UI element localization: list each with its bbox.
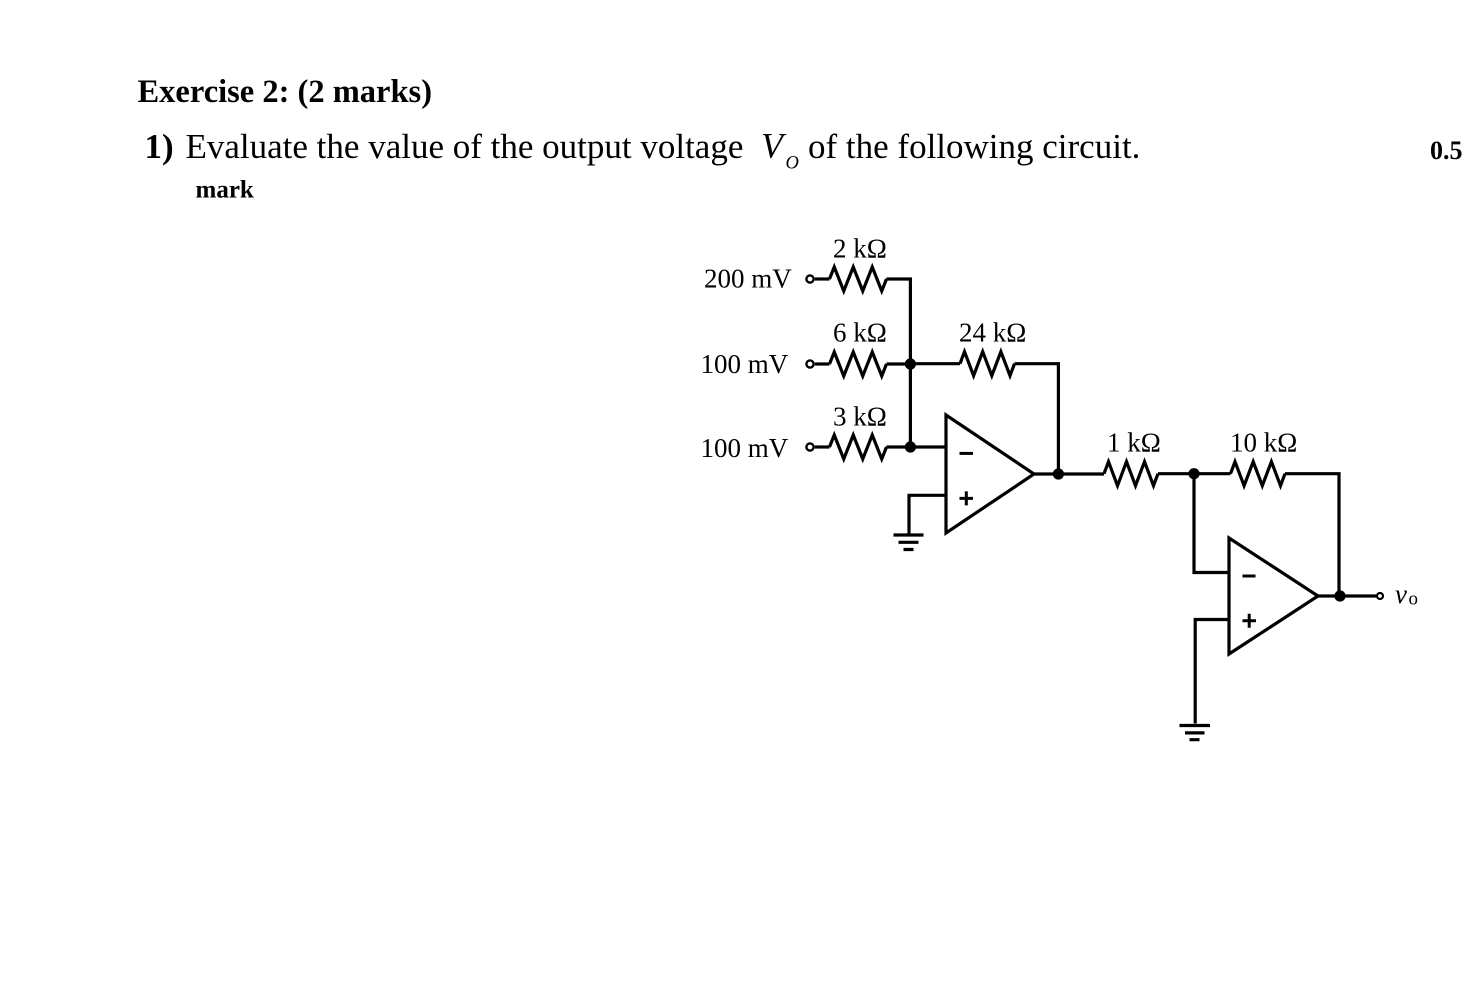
- svg-text:of the following circuit.: of the following circuit.: [808, 127, 1140, 166]
- wire: [1015, 364, 1059, 474]
- wire: [1194, 472, 1231, 475]
- svg-text:10 kΩ: 10 kΩ: [1230, 428, 1297, 458]
- wire: [910, 362, 960, 365]
- wire: [1285, 474, 1339, 596]
- svg-text:100 mV: 100 mV: [701, 433, 789, 463]
- U1 inverting input minus: [960, 452, 974, 455]
- wire: [815, 445, 830, 448]
- resistor R1 2 kOhm: [830, 267, 887, 291]
- output terminal vo: [1377, 593, 1383, 599]
- wire: [909, 495, 946, 533]
- svg-text:mark: mark: [196, 177, 254, 204]
- svg-text:24 kΩ: 24 kΩ: [959, 318, 1026, 348]
- source terminal 100 mV row2: [806, 360, 813, 367]
- svg-text:0.5: 0.5: [1430, 136, 1463, 165]
- source terminal 200 mV: [806, 275, 813, 282]
- U1 non-inverting input plus: [960, 491, 974, 505]
- wire: [1158, 472, 1194, 475]
- U2 inverting input minus: [1243, 575, 1256, 578]
- svg-text:o: o: [1409, 589, 1419, 610]
- svg-text:100 mV: 100 mV: [701, 349, 789, 379]
- U2 non-inverting input plus: [1243, 614, 1257, 628]
- resistor R3 3 kOhm: [830, 435, 887, 459]
- wire: [815, 362, 830, 365]
- svg-text:2 kΩ: 2 kΩ: [833, 233, 887, 263]
- wire: [909, 364, 912, 447]
- node D U2 inverting node: [1188, 468, 1199, 479]
- wire: [887, 279, 911, 364]
- resistor R5 1 kOhm: [1104, 462, 1158, 486]
- svg-text:O: O: [786, 154, 799, 174]
- wire: [887, 362, 911, 365]
- op-amp U1: [946, 415, 1034, 533]
- svg-text:200 mV: 200 mV: [704, 264, 792, 294]
- op-amp U2: [1229, 538, 1318, 654]
- svg-text:v: v: [1395, 579, 1407, 609]
- resistor R2 6 kOhm: [830, 352, 887, 376]
- svg-text:V: V: [761, 126, 787, 166]
- wire: [1034, 472, 1104, 475]
- svg-text:1): 1): [145, 127, 174, 166]
- resistor R4 24 kOhm feedback: [960, 352, 1015, 376]
- ground: [1180, 726, 1211, 740]
- node C U1 output: [1053, 468, 1064, 479]
- svg-text:Evaluate the value of the outp: Evaluate the value of the output voltage: [186, 127, 744, 166]
- wire: [1194, 474, 1229, 573]
- svg-text:3 kΩ: 3 kΩ: [833, 402, 887, 432]
- svg-text:Exercise 2: (2 marks): Exercise 2: (2 marks): [138, 74, 433, 110]
- node B inverting input node U1: [905, 441, 916, 452]
- wire: [1318, 594, 1376, 597]
- svg-text:6 kΩ: 6 kΩ: [833, 318, 887, 348]
- svg-text:1 kΩ: 1 kΩ: [1107, 428, 1161, 458]
- wire: [815, 277, 830, 280]
- node E output node: [1334, 590, 1345, 601]
- wire: [1195, 620, 1229, 724]
- ground: [894, 535, 924, 550]
- resistor R6 10 kOhm feedback: [1231, 462, 1286, 486]
- node A summing junction: [905, 358, 916, 369]
- wire: [887, 445, 947, 448]
- source terminal 100 mV row3: [806, 443, 813, 450]
